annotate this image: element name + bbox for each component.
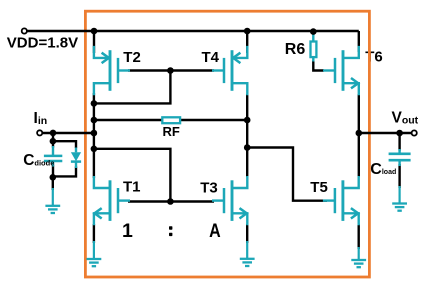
junction Iin/rail <box>91 130 98 137</box>
capacitor Cload <box>389 149 411 166</box>
transistor T5 <box>323 176 359 225</box>
capacitor label Cdiode <box>23 152 54 169</box>
transistor label T6 <box>365 49 383 66</box>
junction RF left <box>91 117 98 124</box>
transistor T6 <box>323 46 359 95</box>
transistor T2 <box>94 46 130 95</box>
resistor label R6 <box>285 41 306 58</box>
wire T5 source to ground <box>358 224 360 249</box>
wire T4 drain to T3 drain <box>246 94 248 177</box>
wire T4 source from VDD <box>246 31 248 53</box>
wire rail to mirror gates <box>94 149 170 202</box>
wire Iin branch split <box>52 133 54 141</box>
wire T1 source to ground <box>93 224 95 243</box>
wire diode branch top <box>53 141 76 148</box>
svg-text:Vout: Vout <box>392 110 419 127</box>
transistor label T3 <box>200 180 218 197</box>
svg-text:VDD=1.8V: VDD=1.8V <box>7 34 78 51</box>
junction RF right <box>244 117 251 124</box>
wire R6 bottom to T6 gate <box>313 61 324 71</box>
junction gate wire T2-T4 <box>167 67 174 74</box>
capacitor label Cload <box>370 161 396 178</box>
wire cap branch bottom <box>52 165 54 178</box>
svg-text:RF: RF <box>163 124 180 139</box>
wire RF right <box>180 119 248 121</box>
label Iin <box>34 110 48 127</box>
svg-text:A: A <box>209 220 221 242</box>
wire Cload top <box>398 133 400 151</box>
wire left rail <box>93 93 95 178</box>
wire T2 source from VDD <box>93 31 95 53</box>
svg-text:T2: T2 <box>123 49 141 66</box>
terminal Iin <box>37 130 42 135</box>
wire T6 drain from VDD <box>358 31 360 52</box>
svg-text:T4: T4 <box>202 49 220 66</box>
ground under T1 <box>87 241 102 266</box>
wire diode branch bottom <box>53 167 76 177</box>
junction T1-T3 gate wire <box>167 198 174 205</box>
junction node X <box>244 144 251 151</box>
capacitor Cdiode <box>44 146 62 167</box>
terminal VDD <box>22 28 27 33</box>
junction diode/cap top <box>50 138 57 145</box>
wire nodeX to T5 gate <box>247 148 327 201</box>
wire Cload bottom <box>398 164 400 188</box>
wire bottom node to ground <box>52 177 54 190</box>
wire VDD rail <box>24 30 359 32</box>
svg-text:R6: R6 <box>285 41 306 58</box>
ground under Cload <box>392 186 407 211</box>
junction Iin branch <box>50 130 57 137</box>
ground under T5 <box>351 247 366 267</box>
transistor label T1 <box>123 179 141 196</box>
transistor label T4 <box>202 49 220 66</box>
resistor label RF <box>163 124 180 139</box>
label ratio colon <box>169 226 172 236</box>
transistor T1 <box>94 176 130 225</box>
svg-text:T1: T1 <box>123 179 141 196</box>
label ratio A <box>209 220 221 242</box>
wire Vout node to T5 drain <box>358 133 360 177</box>
junction T2 drain <box>91 100 98 107</box>
transistor label T2 <box>123 49 141 66</box>
ground under Cdiode <box>45 188 60 213</box>
wire RF left <box>94 119 163 121</box>
label ratio 1 <box>122 220 133 242</box>
wire T6 source to Vout node <box>358 94 360 133</box>
diode photodiode <box>71 148 81 169</box>
transistor label T5 <box>310 179 328 196</box>
node gate-mirror junction down <box>94 71 170 104</box>
wire T1 gate to T3 gate <box>128 200 214 202</box>
terminal Vout <box>412 130 417 135</box>
wire Vout node to terminal <box>359 132 414 134</box>
resistor R6 <box>311 33 317 62</box>
svg-text:1: 1 <box>122 220 133 242</box>
svg-text:T5: T5 <box>310 179 328 196</box>
junction Vout node <box>356 130 363 137</box>
ground under T3 <box>240 241 255 266</box>
wire T3 source to ground <box>246 224 248 243</box>
transistor T4 <box>212 46 247 95</box>
wire T2 gate to T4 gate <box>128 69 214 71</box>
label VDD=1.8V <box>7 34 78 51</box>
transistor T3 <box>212 176 247 225</box>
svg-text:T3: T3 <box>200 180 218 197</box>
svg-text:Cdiode: Cdiode <box>23 152 54 169</box>
junction VDD/T2 <box>91 28 98 35</box>
wire cap branch top <box>52 141 54 147</box>
junction diode/cap bottom <box>50 174 57 181</box>
svg-text:Iin: Iin <box>34 110 48 127</box>
resistor RF <box>162 117 180 123</box>
junction VDD/T4 <box>244 28 251 35</box>
junction Cload <box>396 130 403 137</box>
junction VDD/R6 <box>310 28 317 35</box>
svg-text:T6: T6 <box>365 49 383 66</box>
wire Iin to rail <box>40 132 94 134</box>
junction mirror-gate <box>91 146 98 153</box>
label Vout <box>392 110 419 127</box>
svg-text:Cload: Cload <box>370 161 396 178</box>
